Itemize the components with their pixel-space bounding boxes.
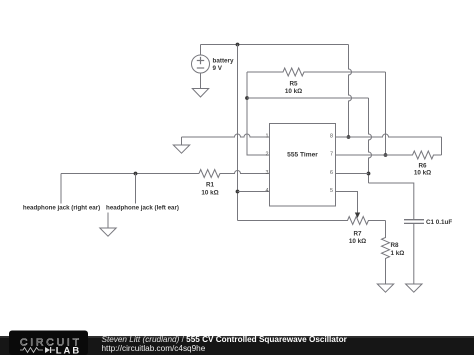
R5 labels [285,81,302,96]
node: pin8 junction [347,135,351,139]
wire: top rail from battery to pin8 vertical [201,44,349,46]
node: battery rail junction [236,43,240,47]
R7 labels [349,231,366,246]
pin 2 [266,152,269,158]
wire: link to C1 top [369,183,414,220]
R7 wiper arrow [355,213,360,219]
battery label [213,58,234,73]
svg-text:Steven Litt (crudland) / 555 C: Steven Litt (crudland) / 555 CV Controll… [102,335,348,344]
ground at R8 [377,284,393,292]
wire: pin6 stub [336,173,369,175]
logo CIRCUIT [20,337,82,348]
wire: Vcc feed to R7 left [238,220,347,222]
pin 4 [266,188,269,194]
svg-text:LAB: LAB [56,344,82,355]
svg-text:555 Timer: 555 Timer [287,152,318,159]
ground at pin1 [173,145,189,153]
R8 labels [391,242,405,257]
pin 6 [330,170,333,176]
capacitor C1 [404,220,424,224]
node: left-ear junction [134,172,138,176]
wire: pin3 row with R1 (hop over x=237.5) [61,171,270,174]
svg-text:6: 6 [330,170,333,176]
pin 3 [266,170,269,176]
svg-text:battery: battery [213,58,234,65]
wire: pin1 to ground (hops over x=237.5 and x=247) [182,134,270,145]
svg-text:2: 2 [266,152,269,158]
battery B1 [192,45,210,89]
pin 5 [330,188,333,194]
footer line 1 [102,335,348,344]
pin 8 [330,134,333,140]
wire: Vcc vertical x=237.5 down to R7 feed [237,45,239,221]
wire: pin2/pin6 link horizontal y=98 [247,97,369,99]
logo diode [45,347,55,353]
wire: pin6 vertical x=368.5 (hops rows 137,155) [369,98,372,183]
svg-text:R8: R8 [391,242,400,249]
wire: to left-ear terminal [135,174,137,204]
wire: pin5 to R7 wiper [336,192,358,215]
svg-text:10 kΩ: 10 kΩ [349,238,366,245]
resistor R6 [386,151,442,159]
svg-text:8: 8 [330,134,333,140]
wire: C1 bottom to ground [413,223,415,284]
wire: R8 bottom to ground [385,260,387,285]
resistor R1 [199,170,222,178]
potentiometer R7 [347,217,386,225]
R1 labels [201,182,218,197]
logo resistor squiggle [20,348,43,353]
wire: stub to jack ground [107,213,109,229]
svg-text:10 kΩ: 10 kΩ [414,170,431,177]
svg-text:1 kΩ: 1 kΩ [391,250,405,257]
terminal label: headphone jack (right ear) [23,205,100,212]
svg-text:R6: R6 [418,163,427,170]
logo LAB [56,344,82,355]
svg-text:R7: R7 [353,231,362,238]
pin 7 [330,152,333,158]
ground below left-ear jack [100,228,116,236]
wire: pin8 row y=137 (hop over x=385.5) [336,134,442,137]
node: pin4 junction [236,190,240,194]
node: junction R5-left / threshold wire [245,96,249,100]
footer bar [0,336,474,355]
svg-text:10 kΩ: 10 kΩ [201,190,218,197]
wire: pin7 stub [336,154,386,156]
svg-text:headphone jack (left ear): headphone jack (left ear) [106,205,179,212]
op-amp U1: 555 timer box [270,124,336,207]
svg-text:4: 4 [266,188,269,194]
logo plate [9,331,88,355]
wire: to right-ear terminal [60,174,62,204]
R6 labels [414,163,431,177]
resistor R5 [247,68,386,76]
wire: pin4 stub [238,191,270,193]
svg-text:7: 7 [330,152,333,158]
footer line 2 [102,344,206,353]
wire: Vcc vertical to pin8 (x=348.5, hops rows 72,98) [349,45,352,138]
wire: R7 right to R8 top [385,221,387,237]
wire: pin2 stub and vertical to R5 [247,72,270,155]
node: pin7 junction [384,153,388,157]
svg-text:9 V: 9 V [213,65,223,72]
svg-text:headphone jack (right ear): headphone jack (right ear) [23,205,100,212]
resistor R8 [382,237,390,260]
node: pin6 junction [367,172,371,176]
svg-text:C1 0.1uF: C1 0.1uF [426,219,452,226]
terminal label: headphone jack (left ear) [106,205,179,212]
ground under battery [192,89,208,98]
C1 label [426,219,452,226]
ground at C1 [406,284,422,292]
svg-text:http://circuitlab.com/c4sq9he: http://circuitlab.com/c4sq9he [102,344,206,353]
svg-text:3: 3 [266,170,269,176]
wire: R6 right loop [441,137,443,155]
svg-text:1: 1 [266,134,269,140]
svg-text:R1: R1 [206,182,215,189]
wire: R5 right vertical down to pin7 row [385,72,387,155]
svg-text:10 kΩ: 10 kΩ [285,88,302,95]
svg-text:R5: R5 [289,81,298,88]
svg-text:5: 5 [330,188,333,194]
pin 1 [266,134,269,140]
555 Timer label [287,152,318,159]
